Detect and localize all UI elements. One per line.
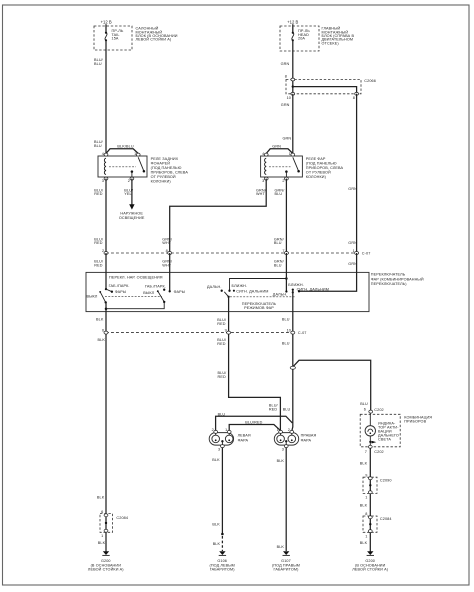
svg-text:ЛЕВОЙ СТОЙКИ А): ЛЕВОЙ СТОЙКИ А) xyxy=(352,568,388,572)
connector C2084 right dashed box xyxy=(363,516,377,532)
svg-text:GRN: GRN xyxy=(348,187,357,191)
svg-text:RED: RED xyxy=(269,407,277,411)
wire from +12V into fuse xyxy=(105,24,107,33)
svg-text:РЕЛЕ ФАР: РЕЛЕ ФАР xyxy=(306,157,326,161)
svg-text:1: 1 xyxy=(365,534,367,538)
wire BLU to left headlamp xyxy=(216,416,293,430)
svg-text:(ПОД ПАНЕЛЬЮ: (ПОД ПАНЕЛЬЮ xyxy=(306,162,337,166)
svg-text:ПЕРЕКЛЮЧАТЕЛЬ): ПЕРЕКЛЮЧАТЕЛЬ) xyxy=(371,282,407,286)
svg-text:БЛИЖН.: БЛИЖН. xyxy=(232,284,248,288)
svg-text:BLU: BLU xyxy=(218,413,226,417)
svg-text:ПРИБОРОВ, СЛЕВА: ПРИБОРОВ, СЛЕВА xyxy=(306,166,344,170)
splice to high beam indicator xyxy=(293,360,371,411)
svg-text:1: 1 xyxy=(365,496,367,500)
svg-text:СВЕТА: СВЕТА xyxy=(378,437,391,441)
svg-text:BLK: BLK xyxy=(97,496,105,500)
svg-text:GRN: GRN xyxy=(272,144,281,148)
svg-text:ДАЛЬН.: ДАЛЬН. xyxy=(207,285,222,289)
svg-text:BLK/BLU: BLK/BLU xyxy=(117,144,133,148)
lighting switch pole 1 contacts xyxy=(105,288,107,290)
relay K1 linkage dashed xyxy=(109,166,136,168)
svg-text:BLK: BLK xyxy=(98,338,106,342)
svg-text:ОСВЕЩЕНИЕ: ОСВЕЩЕНИЕ xyxy=(119,216,145,220)
relay K1 tail lamp relay box xyxy=(98,156,147,177)
svg-text:РЕЖИМОВ ФАР: РЕЖИМОВ ФАР xyxy=(244,306,274,310)
svg-text:G106: G106 xyxy=(217,559,227,563)
fuse block (interior junction block) dashed box xyxy=(94,26,132,50)
svg-text:8: 8 xyxy=(285,75,287,79)
lighting switch linkage dashed xyxy=(105,296,162,298)
connector C-07 dashed line xyxy=(106,252,357,254)
svg-text:ФАР (КОМБИНИРОВАННЫЙ: ФАР (КОМБИНИРОВАННЫЙ xyxy=(371,277,424,281)
svg-text:RED: RED xyxy=(217,342,225,346)
svg-text:8: 8 xyxy=(353,96,355,100)
fuse F HEAD 20A xyxy=(292,32,294,34)
svg-text:ЛЕВАЯ: ЛЕВАЯ xyxy=(238,434,251,438)
svg-text:20A: 20A xyxy=(298,37,305,41)
fuse block (main fuse box) dashed box xyxy=(280,26,319,51)
wire inside C2066 with branch xyxy=(292,80,294,94)
svg-text:ФАРА: ФАРА xyxy=(238,439,249,443)
svg-text:4: 4 xyxy=(102,152,104,156)
svg-text:ЛЕВОЙ СТОЙКИ А): ЛЕВОЙ СТОЙКИ А) xyxy=(136,38,172,42)
svg-text:ДАЛЬН.: ДАЛЬН. xyxy=(273,293,288,297)
wire BLU/RED between headlamps xyxy=(229,425,280,431)
svg-text:6: 6 xyxy=(101,510,103,514)
svg-text:BLK: BLK xyxy=(213,542,221,546)
svg-text:ФАРЫ: ФАРЫ xyxy=(174,290,186,294)
svg-text:+12 В: +12 В xyxy=(287,20,298,25)
svg-text:КОЛОНКИ): КОЛОНКИ) xyxy=(151,180,172,184)
svg-text:RED: RED xyxy=(217,322,225,326)
branch wire to GRN/BLU xyxy=(230,279,287,291)
svg-text:(ПОД ПАНЕЛЬЮ: (ПОД ПАНЕЛЬЮ xyxy=(151,166,182,170)
svg-text:2: 2 xyxy=(128,179,130,183)
ground G106 xyxy=(219,551,225,555)
wire BLK from left headlamp xyxy=(221,448,223,535)
svg-text:C2084: C2084 xyxy=(116,516,128,520)
svg-text:BLU: BLU xyxy=(94,62,102,66)
svg-text:ОТ РУЛЕВОЙ: ОТ РУЛЕВОЙ xyxy=(306,171,331,175)
svg-text:C202: C202 xyxy=(374,450,383,454)
svg-text:GRN: GRN xyxy=(281,103,290,107)
svg-text:ПЕРЕКЛЮЧАТЕЛЬ: ПЕРЕКЛЮЧАТЕЛЬ xyxy=(371,273,406,277)
svg-text:СИГН. ДАЛЬНИМ: СИГН. ДАЛЬНИМ xyxy=(236,289,268,293)
wire GRN/WHT into switch xyxy=(169,253,171,291)
svg-text:ГАБ./ПАРК.: ГАБ./ПАРК. xyxy=(145,284,166,288)
connector C2084 left dashed box xyxy=(100,514,113,533)
arrow to exterior lighting xyxy=(129,204,134,209)
wire BLU below switch xyxy=(291,312,294,431)
svg-text:BLK: BLK xyxy=(360,504,368,508)
svg-text:ВЫКЛ: ВЫКЛ xyxy=(87,295,98,299)
common link wire xyxy=(106,302,164,309)
relay K2 switch arm xyxy=(293,157,299,171)
ground G200 right xyxy=(367,551,373,555)
svg-text:BLU: BLU xyxy=(275,192,283,196)
wire BLK from cluster xyxy=(369,448,371,552)
wire BLU/RED into switch xyxy=(105,253,107,289)
junction of pole commons xyxy=(105,307,108,310)
svg-text:C-07: C-07 xyxy=(362,251,371,255)
svg-text:ОТСЕКЕ): ОТСЕКЕ) xyxy=(322,41,340,45)
svg-text:ПРИБОРОВ, СЛЕВА: ПРИБОРОВ, СЛЕВА xyxy=(151,171,189,175)
svg-text:+12 В: +12 В xyxy=(101,20,112,25)
svg-text:ОТ РУЛЕВОЙ: ОТ РУЛЕВОЙ xyxy=(151,175,176,179)
svg-text:7: 7 xyxy=(365,450,367,454)
svg-text:3: 3 xyxy=(262,179,264,183)
wire BLK below switch xyxy=(105,312,107,552)
lighting switch pole 2 contacts xyxy=(169,290,171,292)
svg-text:G107: G107 xyxy=(281,559,291,563)
svg-text:ГАБАРИТОМ): ГАБАРИТОМ) xyxy=(274,568,300,572)
svg-text:WHT: WHT xyxy=(256,192,265,196)
wire GRN right branch down to C-07 xyxy=(356,94,358,253)
svg-text:BLU/RED: BLU/RED xyxy=(245,420,262,424)
svg-text:ФОНАРЕЙ: ФОНАРЕЙ xyxy=(151,162,171,166)
wire GRN into switch to flash contact xyxy=(299,253,357,291)
svg-text:C2066: C2066 xyxy=(364,79,376,83)
svg-text:RED: RED xyxy=(218,375,226,379)
svg-text:BLK: BLK xyxy=(277,545,285,549)
relay K1 coil xyxy=(104,158,106,174)
svg-text:1: 1 xyxy=(101,534,103,538)
jumper BLK/BLU over tail relay xyxy=(106,149,138,154)
wire GRN down to connector C2066 xyxy=(292,40,294,79)
wire BLU/YEL from relay K1 pin 2 xyxy=(131,179,133,205)
left headlamp E1 xyxy=(209,433,233,446)
svg-text:BLU: BLU xyxy=(283,407,291,411)
pin 10 connector symbol xyxy=(291,92,295,95)
wire BLK from right headlamp xyxy=(285,448,287,552)
svg-text:10: 10 xyxy=(287,328,291,332)
svg-text:ПРАВАЯ: ПРАВАЯ xyxy=(301,434,317,438)
svg-text:ЛЕВОЙ СТОЙКИ А): ЛЕВОЙ СТОЙКИ А) xyxy=(88,568,124,572)
svg-text:GRN: GRN xyxy=(348,262,357,266)
right headlamp E2 xyxy=(274,433,298,446)
wire GRN/BLU from relay K2 pin 2 xyxy=(285,179,287,253)
wire GRN to headlight relay xyxy=(292,94,294,154)
wire BLU/BLU down to relay xyxy=(105,40,107,153)
svg-text:C2090: C2090 xyxy=(380,479,392,483)
svg-text:GRN: GRN xyxy=(283,137,292,141)
svg-text:C-07: C-07 xyxy=(298,331,307,335)
fuse F TAIL 15A xyxy=(105,32,107,34)
svg-text:RED: RED xyxy=(94,263,102,267)
ground G107 xyxy=(283,551,289,555)
svg-text:BLK: BLK xyxy=(360,461,368,465)
dimmer switch pole 2 contacts xyxy=(285,290,287,292)
svg-text:BLK: BLK xyxy=(96,318,104,322)
svg-text:ВЫКЛ: ВЫКЛ xyxy=(143,291,154,295)
connector C2066 dashed box xyxy=(286,80,361,94)
svg-text:BLU: BLU xyxy=(282,318,290,322)
svg-text:RED: RED xyxy=(94,192,102,196)
svg-text:BLU: BLU xyxy=(282,342,290,346)
svg-text:РЕЛЕ ЗАДНИХ: РЕЛЕ ЗАДНИХ xyxy=(151,157,179,161)
svg-text:BLK: BLK xyxy=(360,541,368,545)
svg-text:BLU: BLU xyxy=(274,263,282,267)
svg-text:GRN: GRN xyxy=(348,241,357,245)
relay K2 headlight relay box xyxy=(261,156,303,177)
wire GRN/BLU into switch xyxy=(285,253,287,292)
svg-text:2: 2 xyxy=(282,179,284,183)
svg-text:G200: G200 xyxy=(365,559,375,563)
pin 8 connector symbol xyxy=(291,78,295,81)
svg-text:ПРИБОРОВ: ПРИБОРОВ xyxy=(404,420,426,424)
wire GRN/WHT from relay K2 pin 3 xyxy=(170,179,267,253)
pin 8b connector symbol xyxy=(355,92,359,95)
svg-text:9: 9 xyxy=(365,473,367,477)
lighting switch pole 2 wiper xyxy=(157,290,159,292)
svg-text:10: 10 xyxy=(287,96,291,100)
dimmer linkage dashed xyxy=(230,296,296,298)
svg-text:3: 3 xyxy=(102,179,104,183)
svg-text:C202: C202 xyxy=(374,408,383,412)
wire BLU/RED below switch xyxy=(229,312,281,431)
relay K2 linkage dashed xyxy=(269,166,291,168)
svg-text:GRN: GRN xyxy=(281,62,290,66)
svg-text:BLK: BLK xyxy=(98,541,106,545)
svg-text:8: 8 xyxy=(365,512,367,516)
svg-text:BLU: BLU xyxy=(94,144,102,148)
svg-text:ГАБАРИТОМ): ГАБАРИТОМ) xyxy=(210,568,236,572)
svg-text:RED: RED xyxy=(94,241,102,245)
relay K2 coil xyxy=(265,158,267,174)
svg-text:BLK: BLK xyxy=(277,459,285,463)
svg-text:BLU: BLU xyxy=(360,402,368,406)
lighting switch pole 1 wiper xyxy=(99,291,101,293)
svg-text:BLK: BLK xyxy=(212,458,220,462)
instrument cluster dashed box xyxy=(360,414,400,447)
svg-text:6: 6 xyxy=(364,408,366,412)
svg-text:WHT: WHT xyxy=(162,241,171,245)
dimmer pole 2 wiper xyxy=(292,289,294,291)
high beam indicator lamp L1 xyxy=(369,413,371,425)
dimmer pole 1 wiper xyxy=(224,292,228,297)
svg-text:15A: 15A xyxy=(112,37,119,41)
svg-text:YEL: YEL xyxy=(124,192,131,196)
relay K1 switch arm xyxy=(138,157,144,171)
svg-text:ПЕРЕКЛ. НАР. ОСВЕЩЕНИЯ: ПЕРЕКЛ. НАР. ОСВЕЩЕНИЯ xyxy=(109,275,163,279)
combination switch box xyxy=(86,272,369,311)
ground G200 left xyxy=(103,551,109,555)
wire from lamp to pin 7 xyxy=(369,436,371,447)
svg-text:WHT: WHT xyxy=(162,263,171,267)
svg-text:BLU: BLU xyxy=(274,241,282,245)
svg-text:C2084: C2084 xyxy=(380,517,392,521)
svg-text:3: 3 xyxy=(218,448,220,452)
svg-text:G200: G200 xyxy=(101,559,111,563)
wire from +12V into fuse xyxy=(292,24,294,33)
connector C-07 second dashed line xyxy=(106,332,293,334)
wire BLU/RED down from relay K1 pin 3 xyxy=(105,179,107,253)
svg-text:КОЛОНКИ): КОЛОНКИ) xyxy=(306,175,327,179)
svg-text:3: 3 xyxy=(282,448,284,452)
svg-text:ФАРЫ: ФАРЫ xyxy=(115,290,127,294)
svg-text:ФАРА: ФАРА xyxy=(301,439,312,443)
jumper GRN over headlight relay xyxy=(266,149,293,154)
svg-text:ГАБ./ПАРК.: ГАБ./ПАРК. xyxy=(109,284,130,288)
svg-text:BLK: BLK xyxy=(212,523,220,527)
connector C2090 dashed box xyxy=(363,477,377,493)
